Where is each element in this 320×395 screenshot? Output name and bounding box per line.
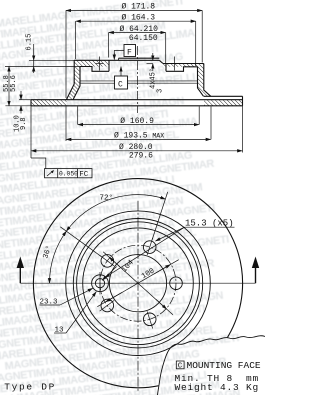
ext line D171.8/D193.5 left	[65, 11, 67, 99]
svg-text:Ø 164.3: Ø 164.3	[122, 13, 156, 22]
band bottom line	[31, 105, 243, 107]
ext line D171.8 right	[201, 11, 203, 63]
svg-text:C: C	[178, 363, 183, 371]
10.0/9.8 dim	[20, 91, 22, 100]
FCF leader	[31, 158, 46, 169]
svg-text:FC: FC	[79, 171, 89, 179]
svg-text:Weight 4.3 Kg: Weight 4.3 Kg	[175, 382, 260, 393]
runout feature control frame	[45, 169, 93, 178]
svg-text:Ø 193.5 MAX: Ø 193.5 MAX	[114, 131, 164, 140]
long leader to detail hole	[105, 227, 185, 277]
svg-text:F: F	[127, 48, 132, 57]
ext line D164.3 left	[75, 21, 77, 59]
bore circle D64	[109, 255, 166, 312]
dim line D193.5	[66, 138, 210, 140]
flange top right	[163, 63, 204, 65]
svg-text:Type DP: Type DP	[4, 382, 56, 393]
radial extension at 144deg	[60, 227, 101, 257]
svg-text:279.6: 279.6	[129, 152, 153, 161]
hatch left wall	[66, 60, 80, 99]
svg-text:9.8: 9.8	[20, 117, 28, 130]
svg-text:72°: 72°	[100, 194, 114, 203]
svg-text:64.150: 64.150	[129, 34, 158, 43]
section plane arrows	[17, 257, 260, 284]
hatch flange right	[163, 64, 204, 72]
dim 104 line at 138/318 deg	[103, 252, 173, 315]
circle hat top od D164.3	[77, 222, 200, 345]
svg-text:23.3: 23.3	[40, 299, 59, 307]
left wall outer	[66, 60, 74, 99]
dim line D280	[31, 150, 242, 152]
hatch band left	[32, 100, 67, 106]
hatch flange left	[74, 60, 109, 66]
4x45 / 3 dim	[147, 63, 153, 65]
dim line D64.210	[109, 32, 166, 34]
svg-text:4x45°: 4x45°	[149, 68, 158, 89]
chamfer step 4x45	[159, 60, 163, 63]
svg-text:13: 13	[55, 327, 65, 335]
svg-text:6.15: 6.15	[26, 34, 34, 51]
svg-text:3: 3	[157, 89, 165, 93]
hatch right wall	[198, 64, 211, 97]
right wall inner	[198, 67, 204, 97]
bore left edge	[108, 60, 110, 71]
bolt hole centerline right	[174, 57, 176, 71]
ext line D64 left	[108, 33, 110, 58]
F datum box	[124, 45, 136, 57]
bolt holes r6.3 at 0,72,144,216,288 deg	[101, 241, 182, 326]
wavy break line	[158, 336, 266, 395]
svg-text:0.050: 0.050	[59, 171, 78, 178]
radial extension at 72deg	[152, 192, 168, 240]
circle flare outer D193.5	[66, 211, 211, 356]
55.8 dim	[5, 105, 105, 107]
bolt circle (BCD)	[100, 245, 176, 321]
bolt hole centerline left	[96, 57, 179, 71]
C datum box	[115, 76, 128, 89]
dim 100 line at 30/210 deg	[97, 260, 178, 307]
flange top second line over bore	[119, 57, 160, 59]
flange bottom right	[166, 67, 198, 72]
ext line D64 right	[165, 33, 167, 64]
bottom-right notes	[176, 361, 184, 369]
radial ticks through holes	[100, 238, 186, 329]
dim line D160.9	[78, 124, 199, 126]
6.15 dim	[29, 59, 74, 61]
section vertical centerline	[137, 46, 139, 113]
watermark	[0, 0, 249, 395]
flange bottom left / mounting face	[80, 67, 109, 72]
hat interior double lines (C datum lines)	[80, 81, 198, 83]
ext line D164.3 right	[195, 21, 197, 66]
outer circle D280	[33, 179, 242, 388]
detail hole at 180deg with counterbore	[92, 272, 109, 295]
left wall inner	[73, 67, 80, 100]
leader to top hole	[156, 227, 185, 241]
72deg dimension arc	[66, 195, 165, 231]
svg-text:Ø 160.9: Ø 160.9	[120, 117, 154, 126]
centerlines	[137, 201, 139, 391]
F leader	[114, 51, 124, 57]
svg-text:55.6: 55.6	[10, 75, 18, 92]
right wall outer	[204, 64, 211, 97]
svg-text:Ø 171.8: Ø 171.8	[122, 3, 156, 12]
svg-text:MOUNTING FACE: MOUNTING FACE	[187, 360, 261, 371]
band left edge	[30, 100, 32, 106]
circle hat inner	[83, 228, 194, 339]
circle hat od D171.8	[73, 219, 202, 348]
svg-text:Ø 64.210: Ø 64.210	[120, 25, 159, 34]
svg-text:C: C	[118, 80, 123, 89]
band top line	[31, 99, 243, 101]
36deg dimension arc	[50, 231, 67, 283]
band right raised edge line	[204, 95, 243, 97]
flange top left	[74, 59, 159, 61]
dim line D171.8	[66, 10, 202, 12]
band right edge	[242, 96, 244, 106]
hatch band right	[204, 100, 242, 106]
bore right edge	[165, 64, 167, 72]
dim line D164.3	[76, 20, 196, 22]
